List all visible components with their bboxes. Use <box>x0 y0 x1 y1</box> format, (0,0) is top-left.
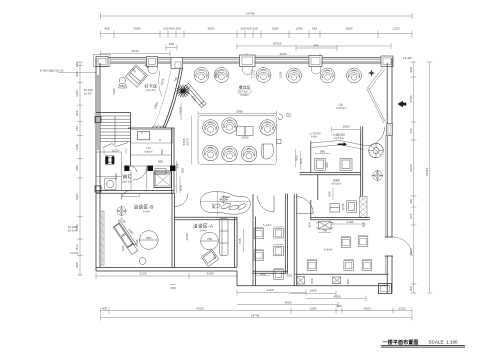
svg-text:2420: 2420 <box>364 307 371 311</box>
svg-text:620: 620 <box>169 42 174 46</box>
svg-text:14748: 14748 <box>246 12 255 16</box>
svg-text:5+4m²: 5+4m² <box>200 230 207 233</box>
svg-text:1290: 1290 <box>296 27 303 31</box>
svg-text:985: 985 <box>75 165 79 170</box>
svg-text:1900: 1900 <box>310 289 317 293</box>
svg-text:405: 405 <box>104 27 109 31</box>
square tables right room <box>341 236 351 247</box>
curved screen walls <box>165 68 183 128</box>
bottom exterior (south) <box>237 285 389 287</box>
black columns row <box>124 166 129 172</box>
inner top dims <box>237 45 391 47</box>
svg-text:×4.06m²: ×4.06m² <box>240 94 249 97</box>
portico outline top-left <box>94 54 111 67</box>
svg-text:L.梯: L.梯 <box>338 103 343 107</box>
svg-text:940: 940 <box>176 163 180 168</box>
elevator <box>154 172 172 188</box>
svg-text:950: 950 <box>160 149 164 154</box>
chamfer top right (V walls) <box>367 68 383 89</box>
svg-text:2680: 2680 <box>223 195 230 199</box>
svg-text:13-3.68: 13-3.68 <box>70 252 79 255</box>
svg-text:830: 830 <box>75 71 79 76</box>
svg-text:1220: 1220 <box>178 107 183 114</box>
svg-text:8.8m²: 8.8m² <box>311 136 317 139</box>
svg-text:5+4.8m²: 5+4.8m² <box>263 224 272 227</box>
svg-text:3190: 3190 <box>207 272 214 276</box>
room B / A divider <box>171 193 173 267</box>
pier 3 with bay <box>240 55 256 67</box>
svg-text:780: 780 <box>207 237 212 241</box>
svg-text:1150: 1150 <box>75 90 79 97</box>
piano <box>262 144 274 159</box>
svg-text:405: 405 <box>102 307 107 311</box>
svg-text:一楼平面布置图: 一楼平面布置图 <box>383 339 419 346</box>
svg-text:520: 520 <box>287 273 292 277</box>
svg-text:960: 960 <box>211 203 215 208</box>
svg-text:3045: 3045 <box>132 49 139 53</box>
svg-text:720: 720 <box>409 128 413 133</box>
svg-text:1220: 1220 <box>393 27 400 31</box>
svg-text:5+9.8m²: 5+9.8m² <box>324 249 333 252</box>
small star decor <box>368 70 375 77</box>
small counter table in service room <box>138 132 150 140</box>
svg-text:350: 350 <box>120 84 125 88</box>
spiral decor <box>278 114 283 120</box>
svg-text:810: 810 <box>75 110 79 115</box>
diagonal bench group <box>112 220 139 254</box>
svg-text:9125: 9125 <box>197 307 204 311</box>
svg-text:2070: 2070 <box>186 138 190 145</box>
svg-text:bxh5.8m²: bxh5.8m² <box>337 107 347 110</box>
svg-text:860: 860 <box>146 236 151 240</box>
svg-text:185: 185 <box>75 62 79 67</box>
svg-text:535: 535 <box>238 238 242 243</box>
WC / elevator block walls <box>96 190 174 192</box>
svg-text:三位换鞋凳区: 三位换鞋凳区 <box>331 133 346 137</box>
svg-text:500: 500 <box>362 222 366 227</box>
washbasin <box>105 179 117 190</box>
bottom-left wall (rooms A,B) <box>96 267 237 269</box>
shoe cabinets <box>315 153 330 155</box>
tiny stool pairs <box>215 71 254 78</box>
stairs treads <box>100 116 131 145</box>
right wall door opening <box>385 237 394 256</box>
svg-text:910: 910 <box>299 158 303 163</box>
inner bottom dims <box>96 275 189 277</box>
svg-text:L2.1W: L2.1W <box>403 56 412 60</box>
big flower decor <box>369 143 384 158</box>
scallops at curve landing <box>153 126 165 128</box>
entry hall block (right) <box>310 141 312 173</box>
stair hatch strip (right) <box>360 197 368 218</box>
svg-text:3080: 3080 <box>346 27 353 31</box>
svg-text:970: 970 <box>409 213 413 218</box>
svg-text:525: 525 <box>181 168 185 173</box>
svg-text:bxh1.8m²: bxh1.8m² <box>332 183 342 186</box>
left exterior wall <box>95 58 97 271</box>
svg-text:400: 400 <box>213 254 217 259</box>
svg-text:720: 720 <box>75 126 79 131</box>
svg-text:500: 500 <box>346 279 350 284</box>
small sq right <box>277 140 281 144</box>
door arcs <box>258 196 275 213</box>
svg-text:2790: 2790 <box>409 95 413 102</box>
svg-text:2790: 2790 <box>112 88 116 95</box>
svg-text:200: 200 <box>409 286 413 291</box>
top exterior wall <box>96 57 392 59</box>
svg-text:10415: 10415 <box>273 42 282 46</box>
svg-text:bxh2m²: bxh2m² <box>145 151 153 154</box>
svg-text:1155: 1155 <box>279 71 283 78</box>
right room left wall <box>293 194 295 286</box>
svg-text:1150: 1150 <box>75 143 79 150</box>
bowtie bottom <box>297 277 341 285</box>
curved sofa above room A <box>200 192 250 215</box>
svg-text:980: 980 <box>320 150 325 154</box>
sofa right <box>220 219 229 256</box>
pier 4 with bay <box>309 56 322 67</box>
svg-text:790: 790 <box>322 229 327 233</box>
svg-text:4560: 4560 <box>334 295 341 299</box>
corner pier top-left <box>96 57 108 67</box>
curved dim with labels <box>159 71 162 97</box>
svg-text:300: 300 <box>308 222 312 227</box>
svg-text:入户玄关区: 入户玄关区 <box>309 131 322 135</box>
svg-text:1035: 1035 <box>341 203 345 210</box>
svg-text:985: 985 <box>75 262 79 267</box>
entrance vestibule bottom right <box>379 284 392 294</box>
long table center <box>237 127 246 136</box>
svg-text:1220: 1220 <box>399 307 406 311</box>
svg-text:3125: 3125 <box>140 272 147 276</box>
toilet <box>105 156 108 164</box>
svg-text:2590: 2590 <box>134 27 141 31</box>
right exterior wall <box>386 63 388 294</box>
service block walls (center-left) <box>130 113 132 167</box>
1175 dim <box>103 149 105 155</box>
svg-text:475: 475 <box>179 185 183 190</box>
door arc small (service) <box>131 166 137 172</box>
svg-text:打卡区: 打卡区 <box>145 83 158 89</box>
svg-text:2800: 2800 <box>208 27 215 31</box>
svg-text:885: 885 <box>313 44 318 48</box>
svg-text:B1-2140: B1-2140 <box>68 230 78 233</box>
3590 dim above <box>198 112 277 114</box>
room A right wall <box>234 217 236 267</box>
service nook south wall <box>311 217 370 219</box>
svg-text:2940: 2940 <box>280 52 287 56</box>
svg-text:配餐间: 配餐间 <box>333 178 341 182</box>
svg-text:1920: 1920 <box>75 193 79 200</box>
svg-text:2536: 2536 <box>135 239 139 246</box>
stool <box>119 77 125 83</box>
svg-text:4000: 4000 <box>285 301 292 305</box>
svg-text:515: 515 <box>312 27 317 31</box>
svg-text:810: 810 <box>75 244 79 249</box>
svg-text:B-1845 系统K-50L 5/3: B-1845 系统K-50L 5/3 <box>40 69 64 73</box>
svg-text:2120: 2120 <box>267 288 274 292</box>
svg-text:B1-200: B1-200 <box>84 93 92 96</box>
svg-text:14748: 14748 <box>251 314 260 318</box>
armchair rotated 45 <box>125 65 148 88</box>
svg-text:290: 290 <box>170 286 175 290</box>
svg-text:洽谈区-B: 洽谈区-B <box>134 204 154 211</box>
svg-text:bxh3.6m²: bxh3.6m² <box>334 137 344 140</box>
svg-text:330 400 330: 330 400 330 <box>240 27 257 31</box>
top dim row 2 <box>101 33 413 35</box>
total dim line top <box>101 15 413 17</box>
svg-text:2950: 2950 <box>242 135 249 139</box>
plant <box>184 83 206 107</box>
right room bottom inner <box>295 273 388 275</box>
svg-text:1790: 1790 <box>347 220 354 224</box>
annex walls <box>252 194 254 286</box>
svg-text:bxh3.2m²: bxh3.2m² <box>122 181 132 184</box>
display cabinet left <box>100 215 104 261</box>
svg-text:960: 960 <box>260 272 265 276</box>
svg-text:995: 995 <box>158 160 163 164</box>
svg-text:12315: 12315 <box>425 167 429 176</box>
svg-text:1550: 1550 <box>343 125 350 129</box>
entry arrow <box>338 142 348 146</box>
svg-text:500: 500 <box>310 278 314 283</box>
bowtie table <box>316 222 334 230</box>
svg-text:2285: 2285 <box>310 307 317 311</box>
armchair rotated <box>201 249 219 266</box>
equipment in nook <box>330 204 340 213</box>
svg-text:600: 600 <box>328 191 332 196</box>
svg-text:2645: 2645 <box>185 233 189 240</box>
svg-text:SCALE 1:100: SCALE 1:100 <box>429 339 459 344</box>
pier 2 <box>147 57 158 67</box>
svg-text:bxh1.2m²: bxh1.2m² <box>146 89 156 92</box>
svg-text:5+4m²: 5+4m² <box>143 211 150 214</box>
svg-text:330 400 330: 330 400 330 <box>163 27 180 31</box>
svg-text:998: 998 <box>409 67 413 72</box>
big left arrow (outside right wall) <box>397 101 406 107</box>
svg-text:980: 980 <box>325 162 329 167</box>
svg-text:3590: 3590 <box>236 109 243 113</box>
svg-text:1175: 1175 <box>112 149 119 153</box>
svg-text:950: 950 <box>295 155 299 160</box>
svg-text:2640: 2640 <box>409 164 413 171</box>
break line <box>103 143 128 148</box>
round table <box>140 231 159 250</box>
svg-text:8×7.8㎡: 8×7.8㎡ <box>239 90 248 94</box>
room A top wall <box>175 216 238 218</box>
svg-text:440: 440 <box>409 199 413 204</box>
svg-text:洽谈区-A: 洽谈区-A <box>193 223 214 230</box>
svg-text:520: 520 <box>121 245 125 250</box>
corner pier top-right <box>381 56 393 67</box>
svg-text:1585: 1585 <box>272 27 279 31</box>
